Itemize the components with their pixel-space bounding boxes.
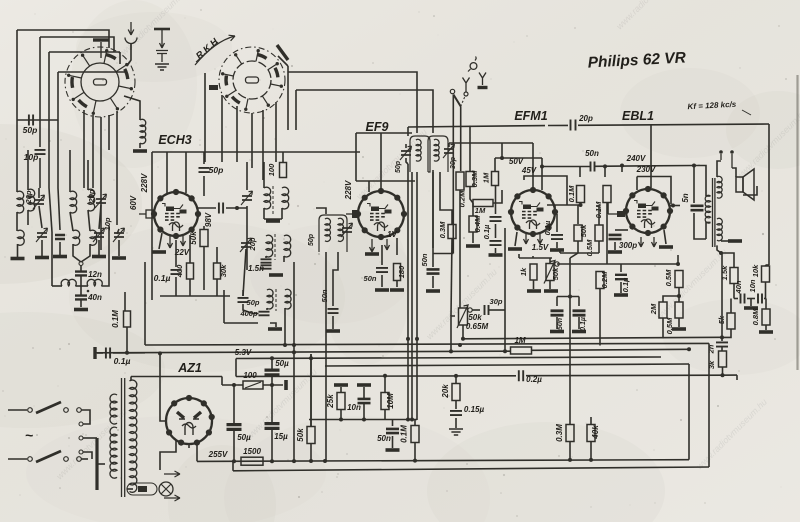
svg-text:100: 100 (243, 371, 257, 380)
label 10k (751, 264, 760, 277)
junction (568, 458, 572, 462)
svg-text:50n: 50n (377, 434, 391, 443)
wire (721, 347, 723, 351)
chassis pad (572, 330, 586, 334)
wire (310, 425, 312, 428)
pickup terminal Y2 (478, 73, 488, 88)
wire (469, 126, 471, 172)
wire (662, 318, 664, 339)
wire (242, 290, 244, 296)
chassis pad (508, 247, 522, 251)
earth terminal with capacitor (154, 29, 170, 70)
wire (246, 206, 248, 270)
resistor (411, 426, 419, 443)
wire (263, 162, 265, 188)
wire (38, 188, 40, 198)
label 0.3M (470, 170, 479, 187)
label 0.1M (594, 201, 603, 218)
wire (27, 150, 29, 190)
svg-text:50n: 50n (420, 253, 429, 266)
wire (721, 240, 729, 242)
OT secondary (717, 176, 722, 198)
svg-text:1M: 1M (475, 206, 486, 215)
trimmer 20p (33, 195, 45, 209)
title Philips 62 VR (587, 49, 687, 71)
label 0.15µ (464, 405, 485, 414)
wire (316, 208, 326, 214)
wire (663, 296, 679, 302)
wire (579, 167, 581, 178)
wire (203, 176, 205, 196)
wire (363, 387, 365, 399)
label 0.5M (665, 317, 674, 334)
wire (448, 143, 450, 147)
wire (472, 203, 474, 216)
wire (407, 127, 409, 136)
label 1M (475, 206, 486, 215)
wire (226, 207, 247, 209)
wire (87, 160, 89, 190)
wire (124, 292, 126, 311)
wire (282, 152, 284, 162)
label 50n (320, 289, 329, 302)
wire (99, 205, 101, 229)
tap terminal (79, 450, 83, 454)
transformer primary (130, 380, 137, 492)
wire (598, 205, 600, 225)
svg-text:0.1M: 0.1M (400, 425, 409, 443)
label 50p (395, 160, 402, 173)
svg-text:0.15µ: 0.15µ (464, 405, 485, 414)
label 1M (514, 336, 525, 345)
svg-text:50k: 50k (468, 313, 482, 322)
wire (124, 96, 140, 120)
wire (433, 253, 453, 255)
wire long right (708, 343, 710, 467)
wire (472, 309, 480, 311)
junction (362, 418, 366, 422)
svg-text:0.4M: 0.4M (473, 215, 482, 232)
junction (449, 349, 453, 353)
wire (340, 387, 342, 393)
label 0.1µ (154, 273, 171, 283)
label 3k (707, 360, 716, 369)
label 0.2µ (526, 375, 542, 384)
resistor (675, 302, 683, 318)
wire (495, 224, 497, 238)
label ~ (25, 427, 33, 443)
svg-text:0.1µ: 0.1µ (114, 356, 131, 366)
wire (97, 463, 105, 465)
wire (271, 358, 273, 370)
capacitor 300p (609, 235, 622, 239)
wire (747, 298, 755, 300)
wire (39, 37, 41, 147)
capacitor (591, 162, 595, 172)
wire (396, 238, 398, 255)
capacitor (29, 115, 33, 126)
wire (451, 239, 452, 317)
wire (198, 207, 216, 209)
junction (323, 459, 327, 463)
wire (98, 240, 100, 255)
wire bus (309, 419, 417, 421)
wire (243, 304, 259, 314)
chassis pad (266, 219, 280, 223)
wire (17, 30, 109, 48)
trimmer (113, 228, 125, 242)
wire (57, 72, 59, 188)
capacitor 12n (75, 272, 87, 276)
resistor (762, 309, 770, 325)
wire (493, 190, 502, 203)
tube EFM1 (508, 187, 558, 237)
wire (556, 297, 558, 307)
wire (670, 205, 680, 207)
svg-text:50p: 50p (308, 233, 315, 246)
tap terminal (79, 422, 83, 426)
wire long (325, 252, 327, 461)
wire (549, 258, 551, 264)
heater pin (181, 236, 186, 246)
svg-text:0.3M: 0.3M (555, 424, 564, 442)
svg-text:EFM1: EFM1 (514, 109, 547, 123)
bus anode (236, 375, 516, 378)
svg-text:50p: 50p (395, 160, 402, 173)
label 0.1µ (482, 224, 491, 239)
wire (384, 376, 386, 393)
svg-text:0.65M: 0.65M (466, 322, 489, 331)
bus AVC (95, 351, 510, 353)
wire (449, 142, 533, 144)
label 50k (551, 267, 560, 280)
chassis pad (35, 256, 49, 260)
label 0.5M (664, 269, 673, 286)
wire (494, 158, 496, 172)
wire long (569, 297, 571, 425)
resistor 1500 (241, 457, 263, 465)
svg-text:50p: 50p (247, 298, 260, 307)
junction (270, 356, 274, 360)
wire EBL1 grid (650, 125, 652, 188)
junction (620, 164, 624, 168)
junction (232, 459, 236, 463)
svg-text:0.5M: 0.5M (664, 269, 673, 286)
wire detector (504, 228, 506, 310)
wire (765, 325, 767, 330)
wire (721, 253, 723, 341)
resistor (448, 225, 456, 239)
coil L1 (17, 191, 24, 213)
label 0.3M (555, 424, 564, 442)
bus 255V (197, 460, 689, 462)
resistor (577, 186, 585, 203)
label 5k (717, 315, 726, 324)
OT primary (705, 195, 710, 223)
chassis pad (659, 245, 673, 249)
wire (381, 245, 383, 265)
wire (139, 143, 141, 148)
wire (216, 247, 218, 263)
resistor (762, 266, 770, 282)
wire plate (547, 204, 580, 206)
wire (440, 172, 452, 225)
svg-text:0.1M: 0.1M (111, 310, 120, 328)
wire (80, 266, 82, 272)
label 10n (347, 403, 361, 412)
capacitor (615, 275, 627, 279)
chassis pad (390, 288, 404, 292)
chassis pad (544, 289, 558, 293)
S2 contact bar (277, 45, 288, 60)
junction (503, 349, 507, 353)
wire (678, 296, 680, 302)
wire (221, 377, 223, 386)
wire (159, 233, 162, 249)
bus (145, 343, 709, 345)
mains transformer core (122, 378, 125, 497)
wire (262, 110, 264, 180)
resistor (187, 263, 194, 279)
wire (515, 232, 517, 246)
wire (119, 52, 121, 64)
svg-text:20p: 20p (578, 114, 593, 123)
wire (332, 316, 334, 329)
wire (70, 212, 73, 231)
wire (160, 440, 176, 470)
wire (405, 144, 407, 148)
wire (16, 212, 18, 231)
wire (432, 170, 434, 267)
wire (118, 240, 120, 256)
wire (557, 296, 579, 298)
label 50n (420, 253, 429, 266)
wire (58, 71, 127, 73)
svg-text:20p: 20p (87, 189, 96, 203)
wire (108, 115, 110, 150)
wire (8, 458, 27, 460)
label 1V (387, 230, 397, 239)
svg-text:98V: 98V (204, 212, 213, 227)
svg-text:228V: 228V (344, 180, 353, 200)
IFT3 coil (434, 139, 439, 161)
svg-text:0.3M: 0.3M (438, 221, 447, 238)
wire (52, 285, 62, 287)
wire (48, 52, 50, 188)
junction (125, 351, 129, 355)
wire (271, 375, 273, 385)
chassis pad (74, 308, 88, 312)
svg-text:50n: 50n (557, 318, 564, 330)
coil (90, 230, 97, 245)
svg-text:12n: 12n (88, 270, 102, 279)
svg-text:1.5n: 1.5n (248, 264, 264, 273)
chassis pad (357, 383, 371, 387)
wire (113, 352, 145, 354)
resistor (473, 200, 493, 207)
label 0.65M (466, 322, 489, 331)
wire (620, 282, 622, 293)
wire (693, 166, 695, 204)
chassis pad (426, 289, 440, 293)
wire (16, 30, 18, 120)
wire (549, 281, 551, 289)
capacitor (519, 370, 523, 381)
svg-text:20p: 20p (24, 190, 33, 204)
coil (18, 230, 25, 245)
chassis pad (365, 252, 379, 256)
wire (263, 384, 283, 386)
label 5n (681, 193, 690, 202)
OT secondary 2 (717, 218, 722, 240)
wire (392, 436, 394, 448)
heater pin (639, 237, 644, 247)
wire (615, 229, 628, 231)
wire (160, 295, 230, 297)
label 40k (591, 425, 600, 440)
phono switch (450, 89, 465, 106)
resistor (466, 172, 474, 187)
junction (458, 343, 462, 347)
capacitor 15µ (265, 424, 280, 429)
rotary wave-band switch S2 (219, 47, 285, 113)
wire AVC (408, 126, 545, 127)
junction (339, 418, 343, 422)
wire (80, 286, 82, 295)
junction (603, 164, 607, 168)
label 20p (248, 237, 257, 251)
wire (27, 210, 29, 225)
svg-text:10M: 10M (386, 393, 395, 409)
coil L3 (70, 191, 77, 213)
wire (73, 244, 81, 262)
wire (216, 279, 218, 296)
wire (203, 152, 205, 164)
wire (604, 166, 606, 177)
chassis pad (334, 383, 348, 387)
capacitor (571, 120, 576, 131)
junction (292, 459, 296, 463)
osc coil (264, 187, 271, 209)
capacitor (35, 150, 46, 154)
wire (569, 258, 571, 297)
wire (310, 358, 312, 426)
wire (381, 275, 383, 287)
IFT3 bobbin (410, 136, 430, 172)
wire (363, 404, 365, 420)
resistor (307, 427, 315, 444)
chassis pad (326, 329, 340, 333)
wire (264, 218, 282, 220)
chassis pad (614, 293, 628, 297)
svg-text:5n: 5n (681, 193, 690, 202)
wire (590, 417, 592, 425)
label 15µ (274, 432, 288, 441)
wire (204, 73, 206, 162)
junction (579, 203, 583, 207)
osc coil (267, 289, 273, 309)
resistor (566, 425, 574, 442)
wire (556, 242, 558, 248)
label 25k (326, 394, 335, 409)
resistor (587, 425, 595, 442)
junction (292, 350, 296, 354)
wire (595, 165, 694, 168)
capacitor (386, 429, 399, 433)
grid connector EBL1 (608, 211, 625, 217)
label 100 (267, 163, 276, 176)
capacitor (259, 312, 270, 316)
S2 pad (209, 85, 218, 90)
capacitor (238, 298, 249, 302)
label 50p (247, 298, 260, 307)
wire (406, 158, 408, 164)
wire (130, 377, 132, 381)
pilot lamp (159, 482, 173, 496)
label 50µ (275, 359, 289, 368)
wire (580, 203, 582, 205)
wire (69, 150, 71, 192)
label 0.1µ (114, 356, 131, 366)
resistor (381, 393, 389, 410)
resistor (492, 172, 499, 186)
label 22V (174, 248, 190, 257)
wire (160, 354, 166, 421)
svg-text:0.1µ: 0.1µ (154, 273, 171, 283)
wire (621, 166, 623, 173)
wire (116, 111, 118, 225)
chassis pad (268, 327, 282, 331)
wire (504, 310, 506, 351)
wire (189, 235, 191, 263)
resistor (452, 384, 460, 401)
capacitor (199, 168, 210, 172)
wire (271, 429, 273, 461)
svg-text:1k: 1k (519, 267, 528, 276)
wire (495, 248, 497, 253)
wire (356, 180, 415, 182)
wire (81, 458, 88, 460)
rotary wave-band switch S1 (65, 47, 135, 117)
junction (568, 295, 572, 299)
resistor (595, 225, 603, 241)
core (274, 234, 276, 260)
core (275, 289, 277, 311)
antenna plug (125, 22, 137, 50)
wire 230V (637, 177, 671, 205)
coil L4 (88, 189, 95, 211)
wire (222, 384, 243, 386)
wire (677, 263, 679, 264)
svg-text:1.5V: 1.5V (532, 243, 549, 252)
svg-text:30k: 30k (219, 264, 228, 277)
wire (175, 277, 177, 296)
wire (236, 106, 238, 162)
bus AVC (532, 349, 689, 350)
label 50µ (237, 433, 251, 442)
svg-text:2n: 2n (707, 344, 716, 354)
wire (203, 247, 205, 290)
svg-text:240V: 240V (626, 154, 646, 163)
resistor (603, 186, 611, 203)
svg-text:100: 100 (267, 163, 276, 176)
wire (275, 102, 277, 162)
wire (470, 187, 473, 203)
svg-text:50p: 50p (23, 125, 38, 135)
wire 45V (524, 176, 567, 205)
wire (263, 208, 265, 219)
trimmer 30p (443, 144, 455, 158)
